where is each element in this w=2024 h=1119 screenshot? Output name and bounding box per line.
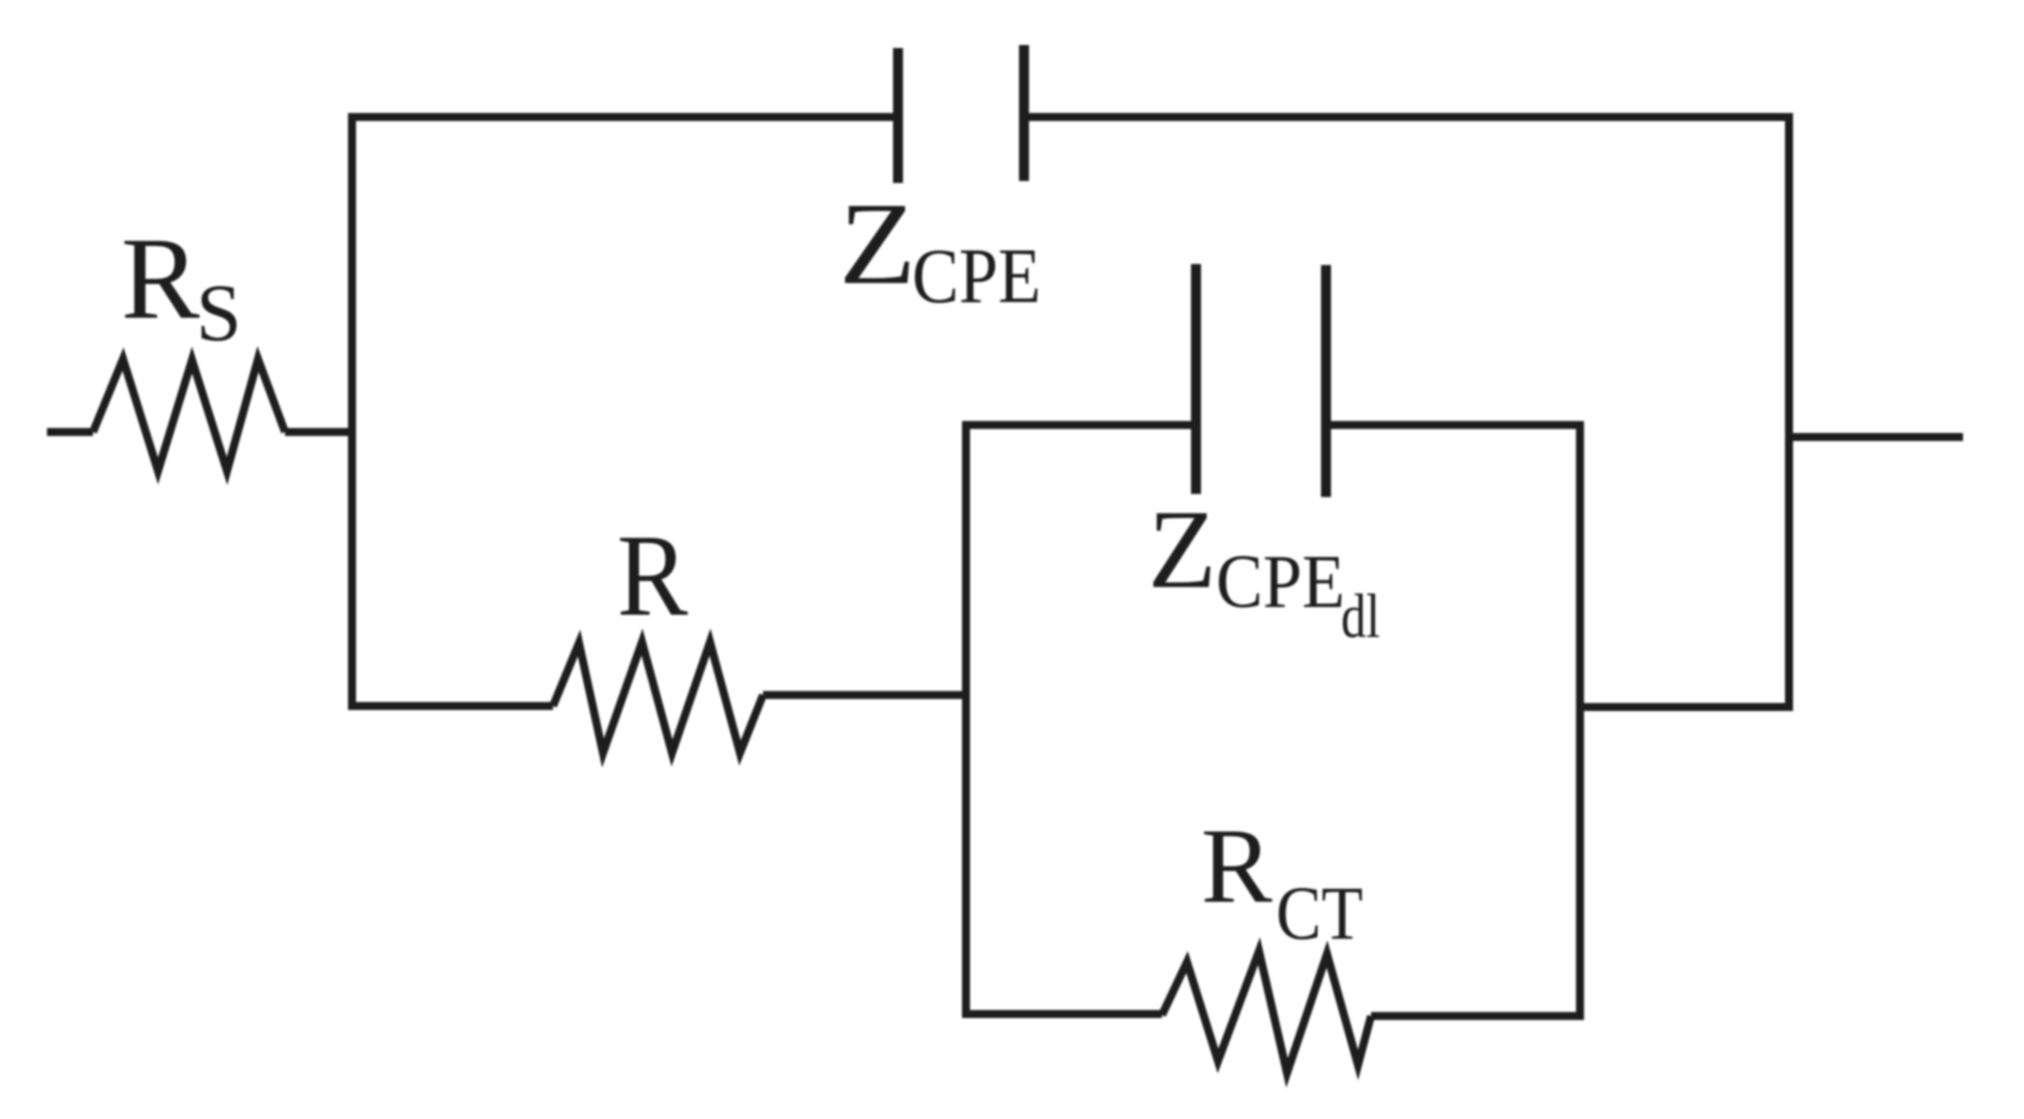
wire: top branch right — [1029, 113, 1793, 121]
capacitor Z_CPE left plate — [893, 48, 903, 183]
wire: inner box right vertical — [1576, 421, 1584, 1020]
svg-text:CPE: CPE — [1216, 540, 1345, 624]
wire: top branch left — [348, 113, 893, 121]
resistor R_CT — [1162, 951, 1371, 1073]
wire: outer right vertical — [1785, 113, 1793, 711]
capacitor Z_CPE right plate — [1019, 45, 1029, 181]
label R_S — [121, 213, 242, 358]
svg-text:Z: Z — [839, 178, 916, 309]
wire: inner box left vertical — [962, 421, 970, 1018]
capacitor Z_CPE_dl left plate — [1191, 264, 1201, 494]
svg-text:CT: CT — [1276, 872, 1363, 956]
wire: outer left vertical — [348, 113, 356, 710]
wire: inner bottom branch right — [1371, 1012, 1584, 1020]
wire: inner top branch left — [962, 421, 1191, 429]
wire: input lead — [47, 428, 93, 436]
resistor R_S — [93, 359, 285, 471]
label R_CT — [1201, 808, 1363, 956]
wire: inner bottom branch left — [962, 1010, 1162, 1018]
label R — [617, 510, 688, 641]
wire: bottom branch left — [348, 702, 553, 710]
svg-text:R: R — [1201, 808, 1273, 926]
wire: R to inner box — [763, 691, 970, 699]
capacitor Z_CPE_dl right plate — [1321, 265, 1331, 497]
svg-text:S: S — [196, 267, 242, 358]
svg-text:CPE: CPE — [912, 232, 1041, 319]
wire: inner top branch right — [1331, 421, 1584, 429]
svg-text:Z: Z — [1148, 488, 1216, 612]
svg-text:R: R — [617, 510, 688, 641]
svg-text:R: R — [121, 213, 200, 344]
wire: R_S to node A — [285, 428, 356, 436]
label Z_CPE — [839, 178, 1041, 319]
resistor R — [553, 642, 763, 753]
label Z_CPE_dl — [1148, 488, 1380, 651]
wire: output lead — [1789, 433, 1963, 441]
wire: inner box to outer right — [1576, 703, 1793, 711]
svg-text:dl: dl — [1341, 583, 1380, 651]
